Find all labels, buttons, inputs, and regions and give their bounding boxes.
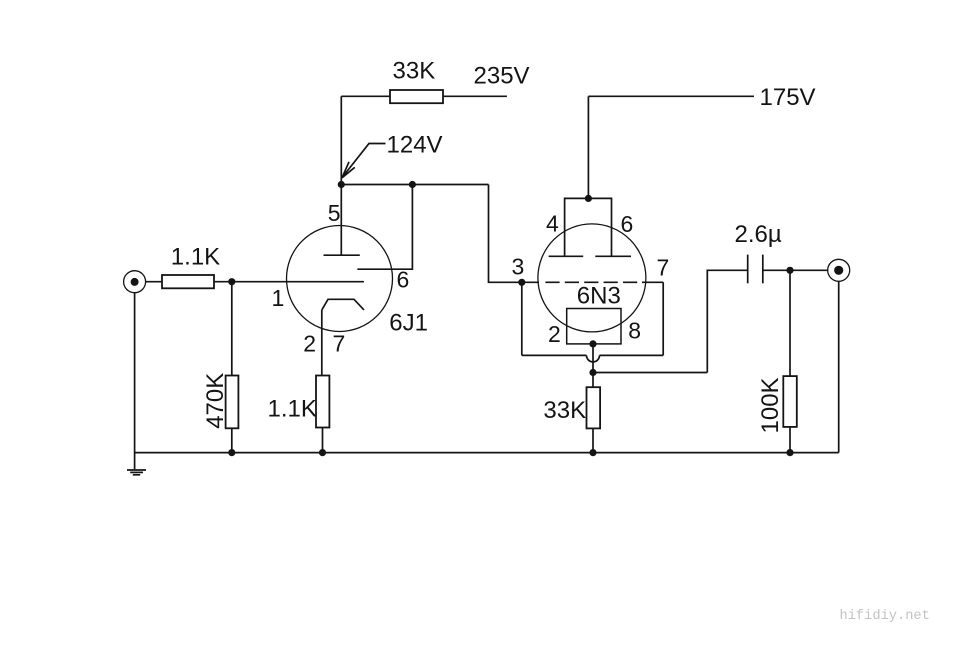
svg-text:235V: 235V — [474, 63, 530, 90]
wire plate node horizontal — [341, 184, 488, 186]
wire V1 cathode lead — [321, 310, 323, 376]
tube V2 grid line solid left part — [522, 281, 539, 283]
tube V2 grid line solid right part — [642, 281, 663, 283]
input jack center pin — [131, 278, 139, 286]
arrowhead 124V barb 1 — [342, 162, 349, 178]
input jack outer circle — [124, 271, 146, 293]
ground symbol bar 3 — [133, 474, 140, 476]
wire screen grid drop — [357, 185, 412, 270]
tube V2 cathode tie rectangle — [567, 309, 621, 344]
tube V2 right plate line — [595, 255, 631, 257]
svg-text:2: 2 — [303, 331, 316, 357]
svg-text:4: 4 — [546, 211, 559, 237]
wire grid loop right vertical — [662, 282, 664, 355]
svg-text:7: 7 — [333, 331, 346, 357]
wire cathode lead through hop — [592, 344, 594, 387]
wire output jack shield drop — [838, 281, 840, 452]
wire grid resistor to 6J1 grid (control grid line) — [214, 281, 364, 283]
wire 175V supply horizontal — [588, 95, 754, 97]
ground symbol bar 2 — [130, 471, 143, 473]
tube V2 left plate line — [549, 255, 584, 257]
wire ground rail — [135, 452, 839, 454]
svg-text:33K: 33K — [393, 58, 436, 85]
wire 100K to rail — [789, 427, 791, 453]
output jack outer circle — [828, 259, 850, 281]
resistor 100K output load body — [783, 376, 797, 427]
svg-text:6J1: 6J1 — [389, 310, 428, 337]
wire V2 plate staple — [565, 198, 612, 256]
output jack center pin — [834, 266, 843, 275]
node 100K rail dot — [786, 449, 793, 456]
node plate staple dot — [585, 195, 592, 202]
svg-text:6: 6 — [621, 211, 634, 237]
wire grid leak vertical — [231, 282, 233, 376]
tube V1 6J1 envelope circle — [287, 226, 393, 332]
node 470K rail dot — [228, 449, 235, 456]
capacitor 2.6u right plate — [762, 255, 764, 284]
svg-text:6N3: 6N3 — [577, 283, 621, 310]
wire cathode output horizontal — [593, 372, 707, 374]
svg-text:1.1K: 1.1K — [268, 396, 317, 423]
svg-text:hifidiy.net: hifidiy.net — [840, 609, 930, 624]
svg-text:175V: 175V — [760, 84, 816, 111]
svg-text:6: 6 — [397, 267, 410, 293]
svg-text:1.1K: 1.1K — [171, 244, 220, 271]
svg-text:33K: 33K — [543, 397, 586, 424]
node 6N3 grid input dot — [518, 279, 525, 286]
node cathode resistor rail dot — [319, 449, 326, 456]
node grid leak junction dot — [228, 278, 235, 285]
tube V2 grid line dashed part — [545, 281, 637, 283]
leader line 124V — [343, 144, 386, 178]
wire input jack to grid resistor — [146, 281, 162, 283]
wire B+ 235V feed right segment — [443, 95, 507, 97]
svg-text:100K: 100K — [757, 377, 784, 433]
wire input jack shield drop — [134, 293, 136, 470]
wire grid loop left vertical — [521, 282, 523, 355]
wire 470K to ground rail — [231, 428, 233, 452]
wire grid loop bottom left segment — [522, 354, 587, 356]
arrowhead 124V barb 2 — [342, 167, 355, 178]
node screen tie dot — [409, 181, 416, 188]
wire coupling to 6N3 grid — [489, 185, 522, 283]
svg-text:2.6µ: 2.6µ — [735, 221, 782, 248]
svg-text:2: 2 — [548, 321, 561, 347]
tube V1 cathode bent line — [322, 299, 364, 310]
wire output load vertical — [789, 270, 791, 376]
resistor 33K plate load body — [390, 90, 443, 103]
wire 33K to rail — [592, 428, 594, 452]
tube V1 plate line — [324, 254, 360, 256]
node cathode tie dot — [589, 340, 596, 347]
resistor 1.1K cathode bias body — [316, 376, 329, 428]
svg-text:7: 7 — [657, 255, 670, 281]
resistor 33K cathode load body — [587, 387, 601, 428]
resistor 1.1K grid stopper body — [162, 275, 214, 288]
wire B+ 235V feed left segment — [341, 95, 390, 97]
node cathode output dot — [589, 369, 596, 376]
tube V2 6N3 envelope circle — [538, 224, 646, 332]
node output load dot — [786, 267, 793, 274]
svg-text:3: 3 — [512, 254, 525, 280]
node plate junction dot — [338, 181, 345, 188]
wire 175V supply vertical — [587, 96, 589, 198]
svg-text:1: 1 — [272, 285, 285, 311]
wire grid loop bottom right segment — [600, 354, 664, 356]
wire 1.1K cathode to rail — [322, 428, 324, 453]
wire hop over cathode lead — [587, 355, 600, 362]
ground symbol bar 1 — [127, 469, 146, 471]
wire cap to output jack — [763, 269, 828, 271]
capacitor 2.6u left plate — [747, 255, 749, 284]
svg-text:124V: 124V — [387, 132, 443, 159]
svg-text:470K: 470K — [202, 373, 229, 429]
wire coupling cap riser — [707, 270, 747, 372]
resistor 470K grid leak body — [226, 376, 239, 429]
svg-text:8: 8 — [628, 318, 641, 344]
wire plate supply vertical — [340, 96, 342, 255]
node 33K rail dot — [589, 449, 596, 456]
svg-text:5: 5 — [328, 200, 341, 226]
